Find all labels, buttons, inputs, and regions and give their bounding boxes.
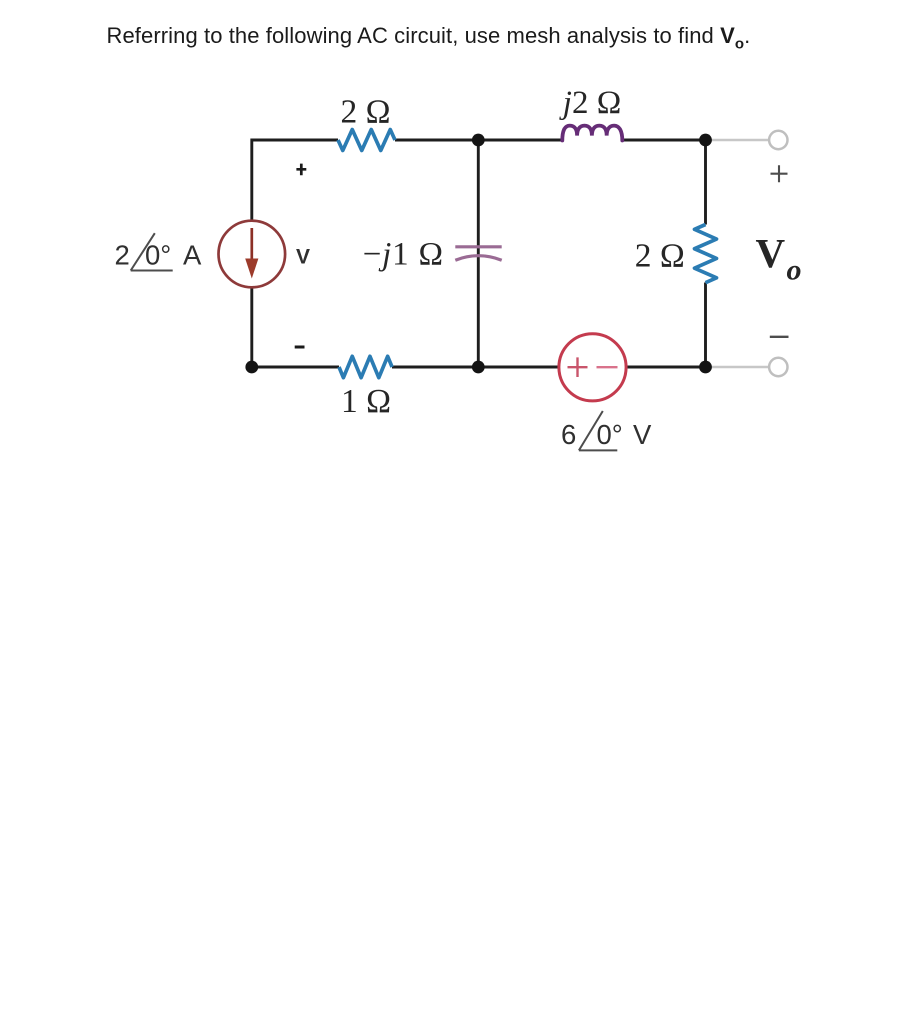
voltage source V1 circle <box>559 334 626 401</box>
wire right vertical lower <box>704 283 707 368</box>
svg-text:6: 6 <box>561 419 576 450</box>
svg-text:0°: 0° <box>145 240 171 271</box>
angle symbol for 2A source <box>131 233 173 270</box>
angle symbol for 6V source <box>579 411 617 450</box>
resistor R top 2ohm <box>338 130 395 151</box>
svg-text:V: V <box>756 230 786 276</box>
svg-text:1 Ω: 1 Ω <box>341 383 391 420</box>
wire top right <box>622 139 706 142</box>
label minus across source <box>295 346 305 349</box>
wire top middle <box>395 139 563 142</box>
wire bottom right <box>626 366 705 369</box>
svg-text:V: V <box>633 419 652 450</box>
node bottom middle <box>472 361 485 374</box>
wire middle vertical <box>477 140 480 367</box>
svg-text:0°: 0° <box>597 419 623 450</box>
resistor R right 2ohm vertical <box>695 225 717 283</box>
wire bottom left <box>252 366 339 369</box>
label output minus <box>770 336 789 338</box>
svg-text:o: o <box>787 254 802 287</box>
wire left vertical upper <box>250 139 253 221</box>
label plus across source <box>296 164 306 176</box>
node bottom right <box>699 361 712 374</box>
terminal top-right <box>769 131 787 149</box>
svg-text:2 Ω: 2 Ω <box>340 94 390 131</box>
voltage source V1 plus sign <box>568 357 588 377</box>
voltage source V1 minus sign <box>597 366 618 368</box>
svg-text:−j1 Ω: −j1 Ω <box>363 236 444 272</box>
wire left vertical lower <box>250 288 253 368</box>
wire bottom middle <box>392 366 559 369</box>
node bottom left <box>245 361 258 374</box>
node top right <box>699 134 712 147</box>
svg-text:A: A <box>183 240 202 271</box>
wire top-left horizontal <box>252 139 338 142</box>
terminal bottom-right <box>769 358 787 376</box>
inductor j2ohm <box>562 126 622 141</box>
svg-text:2: 2 <box>115 240 130 271</box>
current source I1 arrow shaft <box>250 228 253 261</box>
svg-text:2 Ω: 2 Ω <box>635 238 685 275</box>
svg-text:V: V <box>296 245 310 268</box>
capacitor -j1ohm plate bottom <box>455 256 501 261</box>
label output plus <box>771 165 788 182</box>
resistor R bottom 1ohm <box>339 356 392 377</box>
wire gray lead bottom-right <box>706 366 770 369</box>
svg-text:j2 Ω: j2 Ω <box>559 85 621 121</box>
wire right vertical upper <box>704 140 707 225</box>
wire gray lead top-right <box>706 139 770 142</box>
capacitor -j1ohm plate top <box>455 245 501 248</box>
current source I1 circle <box>219 221 286 288</box>
node top middle <box>472 134 485 147</box>
current source I1 arrow head <box>245 259 258 279</box>
